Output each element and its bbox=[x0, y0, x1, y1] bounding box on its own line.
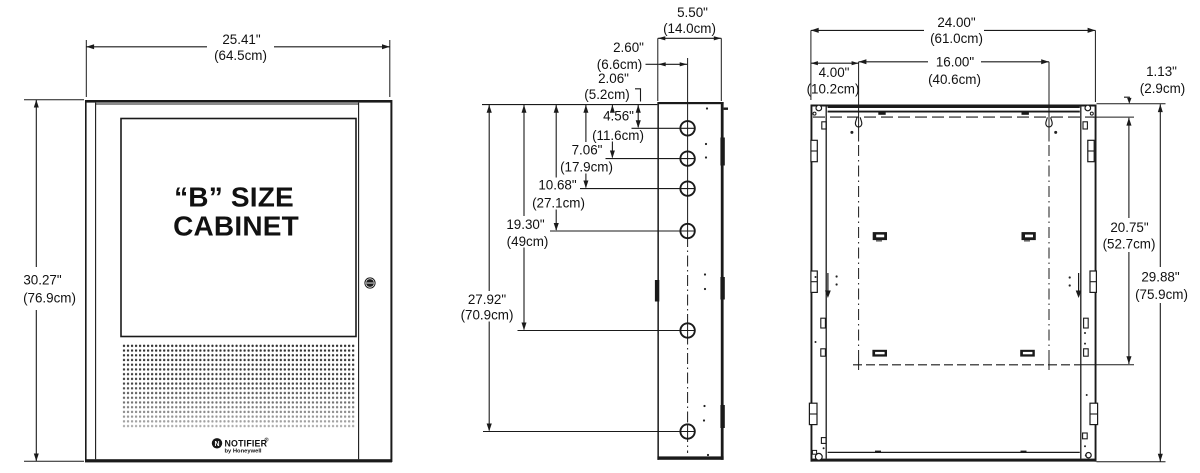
svg-text:(2.9cm): (2.9cm) bbox=[1140, 81, 1185, 96]
svg-text:NOTIFIER: NOTIFIER bbox=[225, 438, 268, 448]
svg-text:by Honeywell: by Honeywell bbox=[225, 449, 262, 455]
svg-text:(52.7cm): (52.7cm) bbox=[1103, 236, 1156, 251]
svg-text:1.13": 1.13" bbox=[1146, 64, 1177, 79]
svg-text:(64.5cm): (64.5cm) bbox=[214, 48, 267, 63]
svg-text:(61.0cm): (61.0cm) bbox=[930, 31, 983, 46]
svg-text:2.06": 2.06" bbox=[598, 71, 629, 86]
svg-text:(76.9cm): (76.9cm) bbox=[23, 291, 76, 306]
svg-text:(10.2cm): (10.2cm) bbox=[807, 82, 860, 97]
svg-text:19.30": 19.30" bbox=[506, 217, 545, 232]
svg-text:4.00": 4.00" bbox=[819, 65, 850, 80]
svg-text:(75.9cm): (75.9cm) bbox=[1135, 287, 1188, 302]
svg-text:(49cm): (49cm) bbox=[507, 234, 549, 249]
svg-text:20.75": 20.75" bbox=[1110, 220, 1149, 235]
svg-text:N: N bbox=[214, 441, 219, 448]
svg-text:29.88": 29.88" bbox=[1141, 269, 1180, 284]
svg-text:(27.1cm): (27.1cm) bbox=[532, 196, 585, 211]
svg-text:(11.6cm): (11.6cm) bbox=[592, 128, 644, 143]
svg-text:(6.6cm): (6.6cm) bbox=[597, 57, 642, 72]
svg-text:(14.0cm): (14.0cm) bbox=[663, 21, 716, 36]
svg-text:“B” SIZE: “B” SIZE bbox=[174, 182, 294, 213]
svg-text:30.27": 30.27" bbox=[23, 273, 62, 288]
svg-text:7.06": 7.06" bbox=[572, 143, 603, 158]
svg-text:CABINET: CABINET bbox=[173, 211, 299, 242]
svg-text:5.50": 5.50" bbox=[677, 5, 708, 20]
svg-text:4.56": 4.56" bbox=[603, 109, 634, 124]
svg-text:(5.2cm): (5.2cm) bbox=[584, 87, 629, 102]
svg-text:16.00": 16.00" bbox=[936, 55, 975, 70]
svg-text:(17.9cm): (17.9cm) bbox=[560, 160, 613, 175]
svg-text:24.00": 24.00" bbox=[937, 15, 976, 30]
svg-text:27.92": 27.92" bbox=[468, 292, 507, 307]
svg-text:2.60": 2.60" bbox=[613, 40, 644, 55]
svg-text:25.41": 25.41" bbox=[222, 32, 261, 47]
svg-text:(70.9cm): (70.9cm) bbox=[461, 308, 514, 323]
svg-text:®: ® bbox=[265, 437, 269, 444]
svg-text:10.68": 10.68" bbox=[538, 178, 577, 193]
svg-text:(40.6cm): (40.6cm) bbox=[928, 72, 981, 87]
